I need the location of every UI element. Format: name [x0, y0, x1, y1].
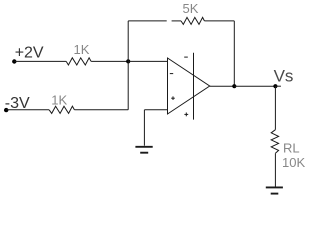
resistor RL 10K — [271, 130, 278, 154]
wire -3V terminal to R2 — [6, 109, 49, 111]
svg-text:1K: 1K — [51, 93, 67, 108]
svg-text:Vs: Vs — [274, 66, 294, 85]
node B (output junction) — [232, 84, 236, 88]
wire R2 to vertical riser — [74, 109, 128, 111]
svg-text:10K: 10K — [282, 155, 305, 170]
node IN2 (-3V terminal) — [4, 108, 8, 112]
wire RL to ground — [274, 153, 276, 187]
resistor R3 5K — [181, 17, 204, 24]
ground G2 (load ground) — [266, 187, 283, 193]
node IN1 (+2V terminal) — [12, 59, 16, 63]
node Vs — [273, 84, 277, 88]
op-amp U1 V+ sign — [184, 113, 188, 117]
op-amp U1 triangle — [168, 58, 210, 114]
wire feedback vertical down to output node — [233, 21, 235, 86]
wire vertical riser -3V branch to summing node — [127, 61, 129, 109]
wire non-inverting input to ground drop — [144, 109, 167, 111]
wire feedback top left segment — [128, 20, 167, 22]
resistor R1 1K — [66, 58, 91, 65]
wire stub right of Vs node — [275, 85, 281, 87]
wire summing node to op-amp inverting input — [128, 60, 167, 62]
wire feedback top short segment — [172, 20, 181, 22]
svg-text:1K: 1K — [74, 42, 90, 57]
wire 5K to right feedback corner — [204, 20, 234, 22]
wire ground drop vertical — [143, 110, 145, 146]
node A (summing junction) — [126, 59, 130, 63]
wire feedback vertical up from summing node — [127, 21, 129, 62]
ground G1 (op-amp input ground) — [135, 147, 152, 153]
svg-text:-3V: -3V — [5, 95, 30, 112]
op-amp U1 power rail line — [193, 53, 195, 120]
wire Vs node down to RL — [274, 86, 276, 130]
wire R1 to summing node — [91, 60, 128, 62]
wire op-amp output to node — [210, 85, 235, 87]
op-amp U1 non-inverting input sign — [171, 96, 175, 100]
wire +2V terminal to R1 — [14, 60, 66, 62]
svg-text:5K: 5K — [183, 1, 199, 16]
svg-text:+2V: +2V — [15, 45, 44, 62]
op-amp U1 V- sign — [184, 56, 188, 58]
wire output node to Vs node — [234, 85, 275, 87]
resistor R2 1K — [49, 106, 74, 113]
svg-text:RL: RL — [283, 141, 300, 156]
op-amp U1 inverting input sign — [170, 73, 173, 75]
